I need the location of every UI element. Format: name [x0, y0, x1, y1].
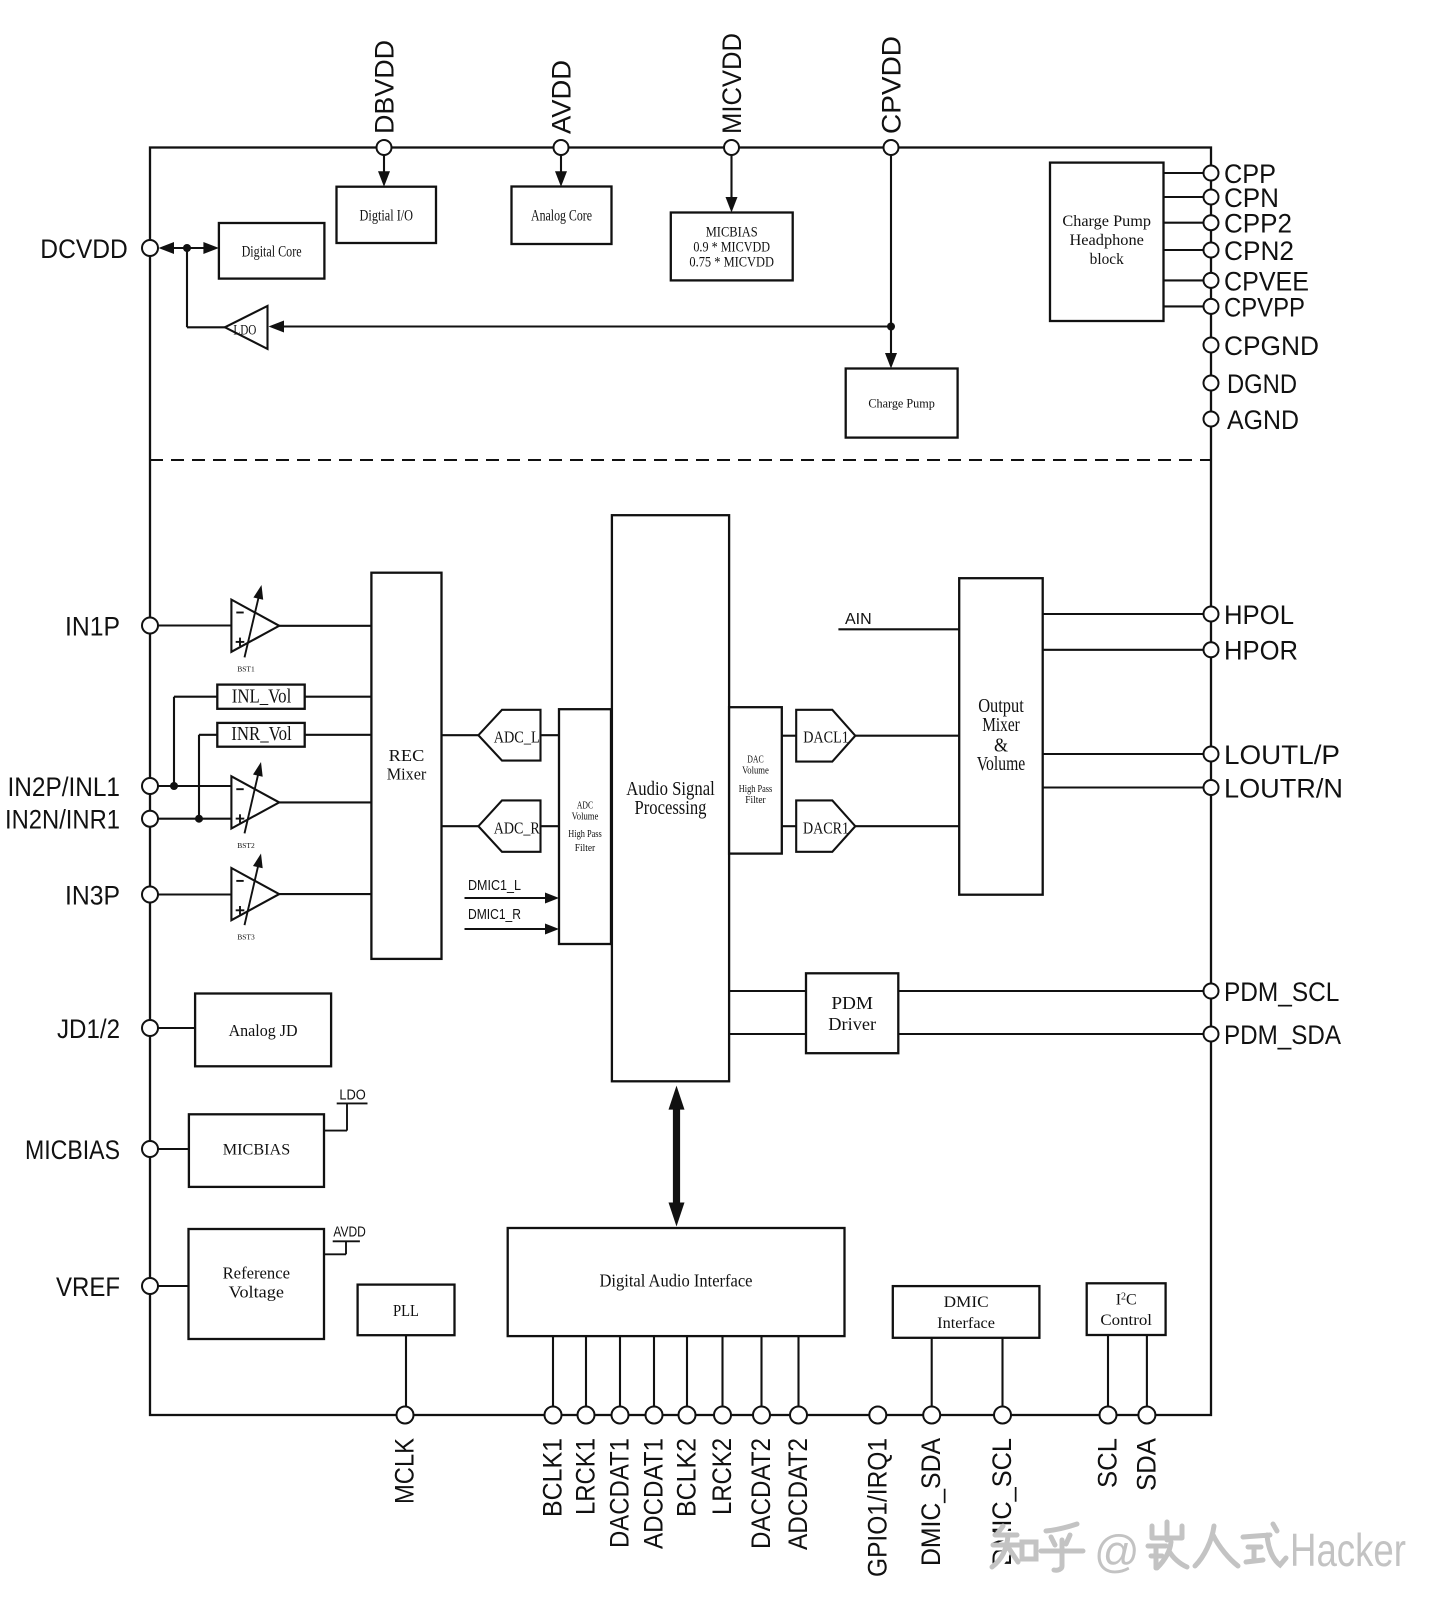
svg-text:Control: Control: [1100, 1312, 1152, 1329]
svg-text:LDO: LDO: [339, 1086, 365, 1103]
svg-text:DMIC1_R: DMIC1_R: [468, 906, 521, 923]
svg-text:ADCDAT1: ADCDAT1: [639, 1438, 669, 1549]
svg-text:AGND: AGND: [1227, 405, 1299, 435]
svg-text:MICVDD: MICVDD: [717, 33, 747, 134]
svg-text:PLL: PLL: [393, 1301, 419, 1320]
svg-text:BST3: BST3: [237, 933, 255, 942]
svg-text:Digital Core: Digital Core: [242, 243, 302, 260]
svg-text:Output: Output: [978, 696, 1024, 717]
svg-text:CPN2: CPN2: [1224, 236, 1294, 266]
svg-text:0.9 * MICVDD: 0.9 * MICVDD: [693, 240, 770, 256]
svg-text:DACDAT1: DACDAT1: [605, 1438, 635, 1548]
svg-text:ADCDAT2: ADCDAT2: [783, 1438, 813, 1550]
svg-text:block: block: [1090, 251, 1124, 268]
svg-text:Driver: Driver: [828, 1014, 876, 1034]
svg-text:Filter: Filter: [745, 794, 766, 806]
svg-text:HPOR: HPOR: [1224, 636, 1298, 666]
svg-text:Headphone: Headphone: [1070, 232, 1145, 249]
svg-text:JD1/2: JD1/2: [57, 1014, 120, 1044]
svg-text:DMIC_SDA: DMIC_SDA: [916, 1438, 946, 1566]
svg-text:Charge Pump: Charge Pump: [1062, 213, 1151, 230]
svg-text:DACDAT2: DACDAT2: [746, 1438, 776, 1549]
svg-text:Filter: Filter: [575, 842, 596, 854]
svg-text:AVDD: AVDD: [547, 60, 577, 134]
svg-text:GPIO1/IRQ1: GPIO1/IRQ1: [862, 1438, 892, 1577]
svg-text:ADC_R: ADC_R: [494, 818, 540, 837]
svg-text:VREF: VREF: [56, 1272, 120, 1302]
svg-text:ADC_L: ADC_L: [494, 727, 540, 746]
svg-text:Volume: Volume: [977, 754, 1026, 775]
svg-text:HPOL: HPOL: [1224, 600, 1294, 630]
svg-text:LRCK2: LRCK2: [707, 1438, 737, 1515]
svg-text:Interface: Interface: [937, 1315, 995, 1332]
svg-text:Voltage: Voltage: [229, 1282, 284, 1301]
svg-text:High Pass: High Pass: [568, 828, 602, 840]
svg-text:Reference: Reference: [223, 1263, 290, 1282]
svg-text:REC: REC: [389, 746, 425, 765]
svg-text:DBVDD: DBVDD: [370, 40, 400, 134]
svg-text:Volume: Volume: [742, 765, 769, 777]
svg-text:DGND: DGND: [1227, 369, 1297, 399]
svg-text:IN2P/INL1: IN2P/INL1: [8, 772, 121, 802]
svg-text:@: @: [1094, 1526, 1140, 1577]
svg-text:DACL1: DACL1: [803, 727, 849, 746]
svg-text:BST2: BST2: [237, 841, 255, 850]
svg-text:CPVPP: CPVPP: [1224, 292, 1305, 322]
svg-text:LRCK1: LRCK1: [571, 1438, 601, 1515]
svg-text:PDM_SDA: PDM_SDA: [1224, 1020, 1341, 1050]
svg-text:Analog Core: Analog Core: [531, 208, 592, 225]
svg-text:Processing: Processing: [635, 797, 707, 819]
svg-text:LDO: LDO: [233, 322, 256, 338]
svg-text:0.75 * MICVDD: 0.75 * MICVDD: [689, 254, 774, 270]
svg-text:INL_Vol: INL_Vol: [232, 686, 292, 707]
svg-text:AIN: AIN: [845, 611, 872, 628]
svg-text:INR_Vol: INR_Vol: [231, 724, 292, 745]
svg-text:SCL: SCL: [1093, 1438, 1123, 1488]
svg-text:MCLK: MCLK: [390, 1438, 420, 1504]
svg-text:CPP2: CPP2: [1224, 209, 1292, 239]
svg-text:DMIC: DMIC: [944, 1294, 989, 1311]
svg-text:Analog JD: Analog JD: [229, 1021, 298, 1040]
svg-text:AVDD: AVDD: [333, 1224, 366, 1241]
svg-text:LOUTR/N: LOUTR/N: [1224, 773, 1343, 803]
svg-text:CPVDD: CPVDD: [877, 36, 907, 134]
svg-text:BST1: BST1: [237, 665, 255, 674]
svg-text:Digtial I/O: Digtial I/O: [360, 208, 414, 225]
svg-text:IN2N/INR1: IN2N/INR1: [5, 805, 120, 835]
svg-text:PDM_SCL: PDM_SCL: [1224, 977, 1339, 1007]
svg-text:MICBIAS: MICBIAS: [706, 225, 758, 241]
svg-text:I2C: I2C: [1116, 1291, 1137, 1308]
svg-text:MICBIAS: MICBIAS: [25, 1135, 120, 1165]
svg-text:BCLK1: BCLK1: [538, 1438, 568, 1517]
svg-text:Mixer: Mixer: [982, 715, 1020, 736]
svg-text:BCLK2: BCLK2: [672, 1438, 702, 1517]
svg-text:SDA: SDA: [1131, 1438, 1161, 1491]
svg-text:IN3P: IN3P: [65, 880, 120, 910]
svg-text:LOUTL/P: LOUTL/P: [1224, 740, 1340, 770]
svg-text:Digital Audio Interface: Digital Audio Interface: [600, 1270, 753, 1290]
svg-text:ADC: ADC: [577, 799, 593, 811]
svg-text:Volume: Volume: [572, 811, 599, 823]
svg-text:CPGND: CPGND: [1224, 331, 1319, 361]
svg-text:Hacker: Hacker: [1290, 1524, 1406, 1576]
svg-text:Charge Pump: Charge Pump: [868, 397, 935, 411]
svg-text:Mixer: Mixer: [387, 765, 427, 784]
svg-text:IN1P: IN1P: [65, 611, 120, 641]
svg-text:High Pass: High Pass: [739, 783, 773, 795]
svg-text:MICBIAS: MICBIAS: [223, 1142, 290, 1159]
svg-text:PDM: PDM: [831, 993, 873, 1013]
svg-text:DACR1: DACR1: [803, 818, 849, 837]
svg-text:DMIC1_L: DMIC1_L: [468, 877, 521, 894]
svg-text:DCVDD: DCVDD: [40, 234, 128, 264]
